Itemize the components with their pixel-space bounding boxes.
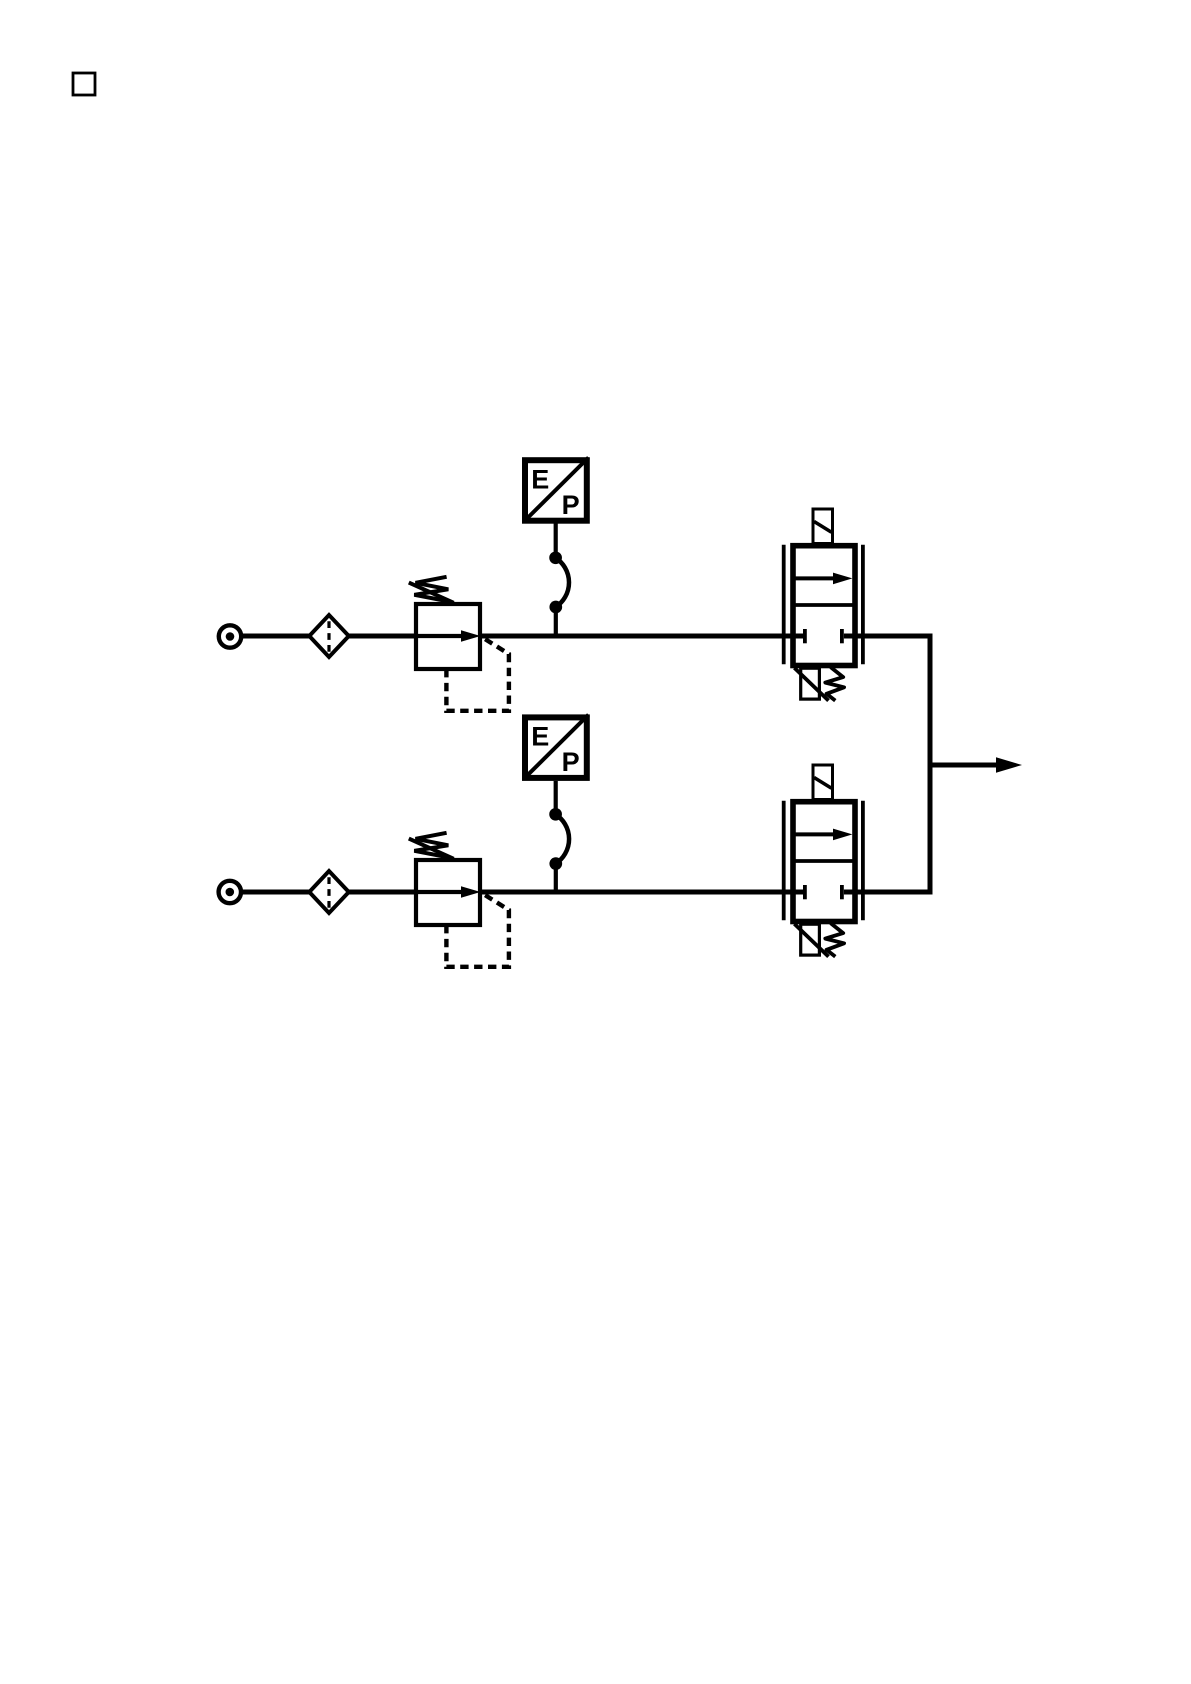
pressure regulator R1 body: [416, 604, 480, 669]
valve V2 flow arrow: [794, 829, 852, 841]
valve V2 blocked port bar right: [840, 885, 844, 899]
valve V2 solenoid: [813, 765, 833, 800]
valve V1 return spring: [825, 667, 844, 701]
wire U2 down: [554, 781, 558, 809]
flexible hose arc: [556, 558, 569, 607]
valve V1 proportional solenoid lower: [794, 668, 828, 701]
wire P2 to filter F2: [243, 890, 310, 895]
svg-text:P: P: [562, 490, 580, 520]
wire F1 to regulator R1: [349, 634, 419, 639]
flexible hose arc: [556, 814, 569, 863]
output arrow: [930, 757, 1022, 772]
wire F2 to regulator R2: [349, 890, 419, 895]
wire P1 to filter F1: [243, 634, 310, 639]
svg-text:P: P: [562, 747, 580, 777]
svg-text:E: E: [531, 465, 549, 495]
pressure regulator R2 body: [416, 860, 480, 925]
valve V1 flow arrow: [794, 573, 852, 585]
E/P converter U1: [525, 458, 589, 521]
filter F1 (diamond): [309, 615, 349, 657]
main wire R2 to valve V2: [480, 890, 803, 895]
regulator R2 flow arrow: [416, 886, 481, 898]
valve V2 position divider: [793, 859, 855, 863]
wire hose to main line: [554, 613, 558, 639]
wire U1 down: [554, 524, 558, 553]
hose end dot: [549, 808, 562, 821]
regulator R1 adjustment arrow: [409, 583, 454, 603]
regulator R2 adjustment arrow: [409, 839, 454, 859]
port P2 (source circle): [219, 881, 241, 903]
valve V1 blocked port bar right: [840, 629, 844, 643]
E/P converter U2: [525, 715, 589, 778]
valve V2 return spring: [825, 923, 844, 957]
valve V1 position divider: [793, 603, 855, 607]
svg-text:E: E: [531, 722, 549, 752]
main wire R1 to valve V1: [480, 634, 803, 639]
regulator R1 pilot line (dashed): [446, 637, 509, 711]
wire V1 out to junction: [844, 636, 930, 892]
regulator R1 spring: [414, 577, 451, 602]
valve V2 body: [793, 802, 855, 922]
valve V1 body: [793, 546, 855, 666]
hose end dot: [549, 551, 562, 564]
valve V2 blocked port bar left: [803, 885, 807, 899]
port P1 (source circle): [219, 625, 241, 647]
regulator R1 flow arrow: [416, 630, 481, 642]
wire hose to main line: [554, 869, 558, 894]
regulator R2 spring: [414, 833, 451, 858]
filter F2 (diamond): [309, 871, 349, 913]
valve V1 blocked port bar left: [803, 629, 807, 643]
page marker square: [73, 73, 95, 95]
valve V2 right rail: [861, 801, 865, 921]
valve V1 left rail: [782, 545, 786, 665]
hose end dot: [549, 857, 562, 870]
regulator R2 pilot line (dashed): [446, 893, 509, 967]
valve V2 left rail: [782, 801, 786, 921]
hose end dot: [549, 601, 562, 614]
valve V1 solenoid: [813, 509, 833, 544]
valve V1 right rail: [861, 545, 865, 665]
valve V2 proportional solenoid lower: [794, 924, 828, 957]
